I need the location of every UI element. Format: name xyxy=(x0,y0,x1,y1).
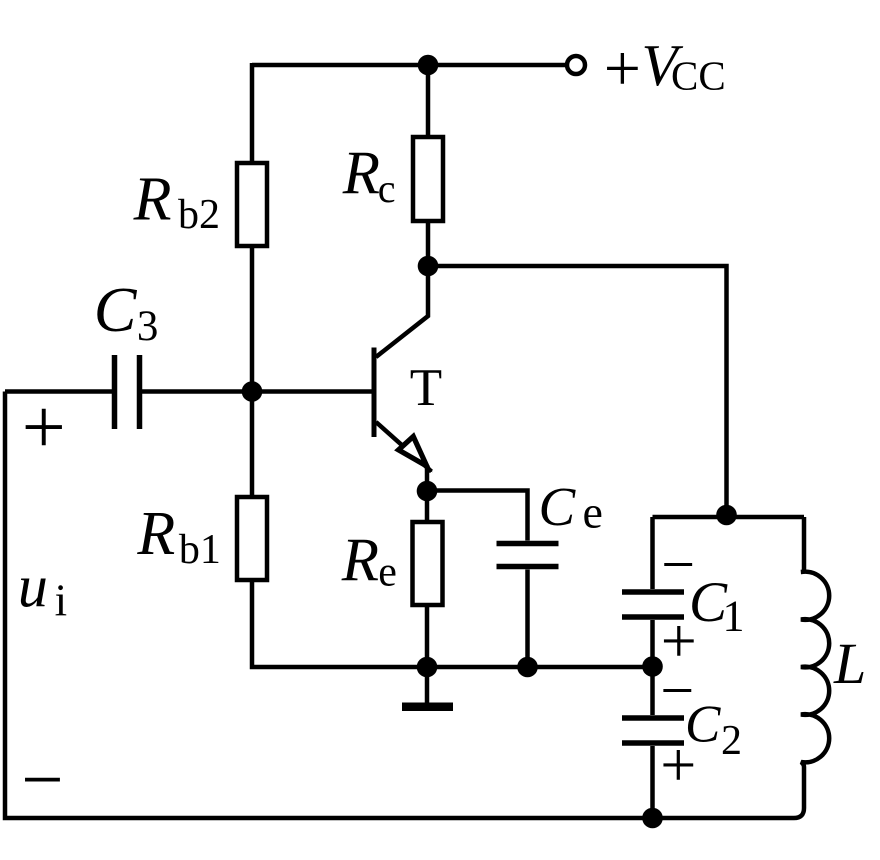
svg-text:+: + xyxy=(660,729,696,800)
junction dot output node C1-C2 xyxy=(642,656,663,677)
svg-text:b1: b1 xyxy=(179,527,221,573)
wire emitter node to Ce xyxy=(427,491,528,541)
svg-text:R: R xyxy=(341,527,379,594)
wire tank top rail xyxy=(653,515,805,520)
junction dot tank top xyxy=(716,505,737,526)
wire Rb1 top xyxy=(250,392,255,498)
svg-text:CC: CC xyxy=(671,53,726,99)
inductor L coil xyxy=(794,517,829,818)
svg-text:−: − xyxy=(21,739,63,822)
svg-text:L: L xyxy=(833,631,866,696)
wire C2 bottom lead xyxy=(650,746,655,818)
svg-text:3: 3 xyxy=(137,303,159,350)
wire C3 right plate to base xyxy=(140,389,375,394)
wire input to C3 left plate xyxy=(5,389,115,394)
junction dot supply/Rc xyxy=(418,55,439,76)
wire Rb1 bottom and common rail xyxy=(252,580,653,667)
svg-text:1: 1 xyxy=(723,591,745,640)
wire Re bottom to rail xyxy=(425,605,430,667)
resistor Rb1 xyxy=(237,497,267,580)
wire Rb2 branch top xyxy=(250,63,255,163)
svg-text:R: R xyxy=(342,140,380,207)
svg-text:b2: b2 xyxy=(178,192,220,238)
junction dot Ce bottom xyxy=(517,657,538,678)
capacitor C1 plates xyxy=(622,592,684,617)
svg-text:R: R xyxy=(133,166,172,234)
svg-text:C: C xyxy=(539,476,577,537)
svg-text:c: c xyxy=(378,166,396,211)
emitter arrowhead of T xyxy=(399,437,427,467)
junction dot collector node xyxy=(418,256,439,277)
wire C1 top lead xyxy=(650,517,655,589)
svg-text:C: C xyxy=(94,274,138,345)
svg-text:T: T xyxy=(410,359,442,417)
wire C1 bottom to C2 top xyxy=(650,620,655,715)
junction dot base node xyxy=(242,381,263,402)
wire top supply rail xyxy=(252,63,567,68)
wire collector node to tank top xyxy=(428,266,727,517)
svg-text:e: e xyxy=(583,487,603,538)
capacitor C2 plates xyxy=(622,718,684,743)
capacitor Ce plates xyxy=(497,544,559,567)
svg-text:R: R xyxy=(136,500,175,568)
transistor T base bar xyxy=(372,348,377,438)
wire Rc bottom to collector node xyxy=(426,221,431,266)
ground stub xyxy=(425,667,430,703)
wire emitter lead of T xyxy=(376,422,432,472)
svg-text:i: i xyxy=(55,576,68,626)
svg-text:+: + xyxy=(22,383,66,470)
junction dot bottom node xyxy=(642,808,663,829)
wire Ce bottom to rail xyxy=(525,570,530,668)
wire Rc branch top xyxy=(426,63,431,137)
ground bar xyxy=(402,703,453,712)
wire input loop left and bottom xyxy=(5,392,794,819)
svg-text:e: e xyxy=(378,550,397,596)
resistor Rb2 xyxy=(237,163,267,246)
junction dot ground node xyxy=(417,657,438,678)
wire emitter to emitter node xyxy=(425,465,430,491)
terminal +VCC open circle xyxy=(567,56,585,74)
junction dot emitter node xyxy=(417,481,438,502)
resistor Rc xyxy=(413,137,443,221)
svg-text:+: + xyxy=(604,32,641,105)
wire collector lead of T xyxy=(376,266,428,357)
wire emitter node to Re xyxy=(425,491,430,522)
svg-text:2: 2 xyxy=(721,718,742,764)
capacitor C3 plates xyxy=(115,355,140,429)
svg-text:u: u xyxy=(18,553,48,619)
resistor Re xyxy=(413,522,443,605)
wire Rb2 bottom to base node xyxy=(250,246,255,392)
